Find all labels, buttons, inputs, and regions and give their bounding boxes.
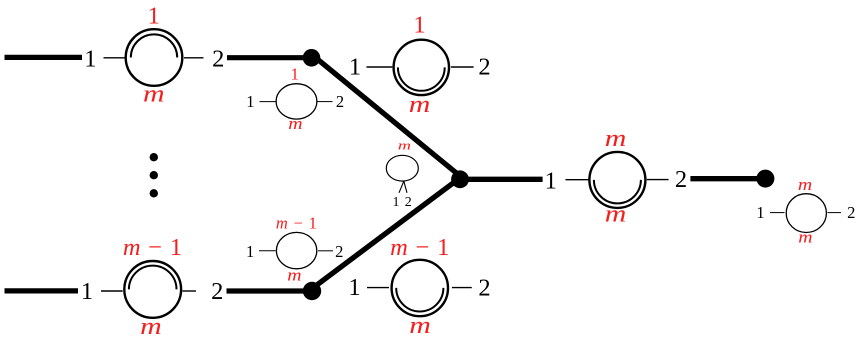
svg-text:2: 2 [336, 92, 344, 111]
svg-text:m: m [287, 266, 301, 284]
loop vertex circle bottom-left [124, 261, 181, 318]
svg-text:m: m [605, 200, 627, 227]
motif C caret right leg [404, 181, 407, 193]
wire thin connector right of top-left circle [184, 57, 204, 59]
motif B thin connector left [260, 101, 277, 103]
motif D thin connector right [318, 250, 333, 252]
svg-text:1: 1 [246, 242, 254, 261]
motif C caret left leg [399, 181, 404, 193]
svg-text:2: 2 [405, 195, 412, 210]
svg-text:2: 2 [478, 275, 490, 302]
svg-text:m − 1: m − 1 [123, 234, 183, 261]
node right end dot [756, 170, 774, 188]
svg-text:1: 1 [84, 46, 96, 73]
svg-text:1: 1 [291, 65, 299, 84]
svg-text:2: 2 [335, 242, 343, 261]
wire external thick edge top-left [5, 55, 83, 60]
wire thick edge central junction to right vertex [460, 177, 543, 182]
svg-text:1: 1 [545, 168, 557, 195]
motif B thin connector right [317, 101, 333, 103]
svg-text:1: 1 [413, 11, 425, 38]
loop vertex circle bottom-middle [392, 260, 448, 316]
svg-text:m: m [409, 311, 431, 338]
svg-text:1: 1 [81, 278, 93, 305]
inner top half-arc of top-left circle [131, 34, 177, 57]
right thin connector right [647, 179, 669, 181]
small motif C ellipse (label at central junction) [386, 155, 418, 181]
svg-text:1: 1 [246, 92, 254, 111]
svg-text:1: 1 [148, 3, 160, 30]
svg-text:m: m [798, 228, 812, 246]
svg-text:1: 1 [756, 203, 764, 222]
wire diagonal edge bottom junction to central junction [312, 178, 461, 289]
svg-text:m: m [798, 176, 812, 194]
motif D thin connector left [259, 250, 276, 252]
svg-text:m − 1: m − 1 [276, 214, 318, 233]
wire diagonal edge top junction to central junction [312, 54, 461, 176]
svg-text:1: 1 [348, 274, 360, 301]
svg-text:m − 1: m − 1 [390, 234, 450, 261]
wire thick edge from top-left vertex to top junction [227, 55, 308, 60]
small motif E circle bottom-right [786, 194, 826, 233]
top-middle thin connector left [367, 66, 393, 68]
loop vertex circle top-left [126, 29, 183, 86]
svg-text:2: 2 [478, 53, 490, 80]
inner bottom half-arc of right circle [594, 180, 641, 204]
bottom-middle thin connector left [367, 287, 389, 289]
wire thick edge right vertex to end dot [690, 176, 759, 181]
vertical ellipsis dot 2 [150, 171, 158, 179]
svg-text:1: 1 [393, 195, 400, 210]
loop vertex circle top-middle [394, 40, 449, 95]
inner top half-arc of bottom-left circle [129, 266, 177, 290]
motif E thin connector right [828, 212, 842, 214]
svg-text:m: m [140, 313, 162, 340]
vertical ellipsis dot 1 [150, 153, 158, 161]
node top junction dot [303, 49, 321, 67]
svg-text:m: m [143, 80, 165, 107]
top-middle thin connector right [451, 66, 474, 68]
wire thin connector left of top-left circle [104, 57, 125, 59]
inner bottom half-arc of top-middle circle [398, 67, 445, 90]
svg-text:m: m [409, 91, 431, 118]
bottom-middle thin connector right [452, 287, 472, 289]
svg-text:m: m [605, 125, 627, 152]
bottom-left thin connector right [182, 290, 196, 292]
inner bottom half-arc of bottom-middle circle [396, 288, 443, 312]
wire thick edge bottom-left vertex to bottom junction [227, 288, 310, 293]
small motif D circle (edge label on lower diagonal) [276, 232, 316, 268]
svg-text:2: 2 [847, 203, 855, 222]
svg-text:m: m [288, 115, 302, 133]
svg-text:2: 2 [212, 46, 224, 73]
node central junction dot [451, 170, 469, 188]
svg-text:2: 2 [675, 166, 687, 193]
small motif B circle (edge label on upper diagonal) [276, 84, 317, 119]
svg-text:2: 2 [211, 278, 223, 305]
bottom-left thin connector left [101, 290, 123, 292]
svg-text:m: m [398, 139, 411, 153]
vertical ellipsis dot 3 [150, 189, 158, 197]
loop vertex circle right [589, 152, 645, 208]
svg-text:1: 1 [349, 53, 361, 80]
right thin connector left [566, 179, 590, 181]
wire external thick edge bottom-left [5, 288, 79, 293]
node bottom junction dot [303, 282, 321, 300]
motif E thin connector left [770, 212, 785, 214]
